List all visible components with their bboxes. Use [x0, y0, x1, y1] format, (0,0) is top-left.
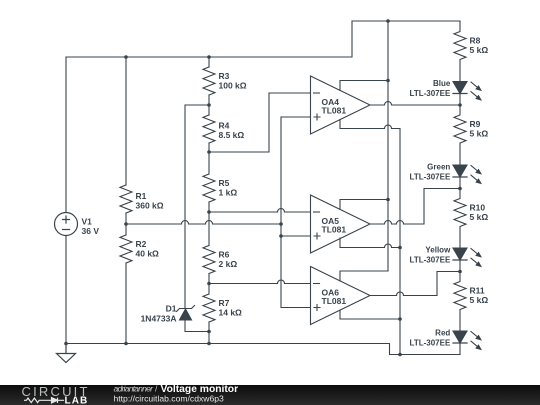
resistor R9 [454, 105, 466, 165]
wire OA5 noninverting stub [281, 235, 311, 237]
wire OA5 V+ pin [340, 200, 388, 210]
junction R3 top / supply net [207, 55, 211, 59]
svg-text:LTL-307EE: LTL-307EE [410, 89, 451, 98]
node D R6-R7 tap to OA6 [207, 282, 211, 286]
svg-text:Yellow: Yellow [425, 246, 451, 255]
svg-text:LTL-307EE: LTL-307EE [410, 256, 451, 265]
wire bottom ground rail [66, 344, 460, 355]
junction V1 minus / ground net [64, 342, 68, 346]
svg-text:Green: Green [427, 163, 450, 172]
svg-text:TL081: TL081 [322, 106, 347, 116]
svg-text:R1: R1 [136, 191, 147, 201]
junction OA5 noninverting input [279, 234, 283, 238]
junction OA5 V+ pin [386, 198, 390, 202]
wire V- supply rail [399, 129, 401, 355]
node B R4-R5 tap to OA4 [207, 150, 211, 154]
svg-text:R9: R9 [470, 119, 481, 129]
svg-text:Red: Red [435, 329, 450, 338]
svg-text:R2: R2 [136, 239, 147, 249]
svg-text:5 kΩ: 5 kΩ [470, 295, 489, 305]
circuitlab logo [22, 384, 90, 405]
svg-text:R6: R6 [219, 250, 230, 260]
svg-text:1 kΩ: 1 kΩ [219, 188, 238, 198]
wire R5-R6 [208, 202, 210, 246]
wire R4-R5 [208, 143, 210, 174]
op-amp OA6 [311, 267, 371, 325]
node junction dots [64, 19, 462, 356]
resistor R6 [203, 246, 215, 274]
wire OA5 inverting feed from R5-R6 node [209, 209, 311, 213]
wire V+ supply rail [387, 21, 389, 271]
wire R2 bottom lead [125, 263, 127, 344]
svg-text:360 kΩ: 360 kΩ [136, 201, 164, 211]
svg-text:100 kΩ: 100 kΩ [219, 81, 247, 91]
svg-text:36 V: 36 V [82, 226, 100, 236]
svg-text:R3: R3 [219, 71, 230, 81]
node G OA5 output / Green LED cathode [458, 187, 462, 191]
wire OA4 output to Blue node [370, 102, 460, 105]
svg-text:R7: R7 [219, 298, 230, 308]
wire R3 top lead [208, 57, 210, 67]
resistor R4 [203, 115, 215, 143]
svg-text:LTL-307EE: LTL-307EE [410, 173, 451, 182]
op-amp OA5 [311, 195, 371, 253]
svg-text:1N4733A: 1N4733A [141, 313, 177, 323]
junction OA6 V- pin [398, 317, 402, 321]
wire OA6 inverting feed from R6-R7 node [209, 280, 311, 284]
node A R3-R4 zener reference [207, 103, 211, 107]
junction V- rail / ground net [398, 353, 402, 357]
svg-text:14 kΩ: 14 kΩ [219, 308, 243, 318]
wire D1 anode to R7 lead [185, 320, 209, 332]
junction OA4 V+ pin [386, 79, 390, 83]
svg-text:D1: D1 [166, 304, 177, 314]
op-amp OA4 [311, 76, 371, 134]
wire noninverting rail [281, 117, 311, 308]
wire OA5 V- pin [340, 238, 400, 248]
resistor R5 [203, 174, 215, 202]
wire OA6 V- pin [340, 310, 400, 319]
svg-text:R4: R4 [219, 121, 230, 131]
wire OA6 V+ pin [340, 271, 388, 281]
footer text [114, 384, 239, 404]
resistor R2 [120, 235, 132, 263]
svg-text:adriantanner: adriantanner [114, 384, 155, 394]
svg-text:40 kΩ: 40 kΩ [136, 249, 160, 259]
svg-text:LTL-307EE: LTL-307EE [410, 339, 451, 348]
wire R1 top lead [125, 57, 127, 185]
LED Yellow D4 [453, 248, 482, 272]
node H OA6 output / Yellow LED cathode [458, 270, 462, 274]
svg-text:Blue: Blue [433, 79, 451, 88]
svg-text:5 kΩ: 5 kΩ [470, 212, 489, 222]
wire left rail lower [65, 236, 67, 344]
junction OA5 V- pin [398, 246, 402, 250]
ground [57, 344, 76, 363]
resistor R11 [454, 272, 466, 332]
wire R3-R4 [208, 95, 210, 115]
wire OA4 V+ pin [340, 81, 388, 91]
wire OA4 V- pin [340, 120, 400, 129]
node F OA4 output / Blue LED cathode [458, 103, 462, 107]
junction V+ rail / supply net [386, 19, 390, 23]
svg-text:V1: V1 [82, 216, 93, 226]
LED Blue D2 [453, 82, 482, 106]
zener diode D1 [177, 306, 195, 321]
resistor R10 [454, 189, 466, 249]
voltage source V1 [55, 213, 78, 236]
LED Green D3 [453, 165, 482, 189]
resistor R7 [203, 294, 215, 322]
svg-text:TL081: TL081 [322, 296, 347, 306]
svg-text:TL081: TL081 [322, 225, 347, 235]
junction tap wire / noninverting rail [279, 222, 283, 226]
junction R1 top / supply net [124, 55, 128, 59]
resistor R3 [203, 67, 215, 95]
svg-text:R10: R10 [470, 203, 486, 213]
svg-text:LAB: LAB [65, 396, 89, 405]
wire left rail upper [65, 57, 67, 213]
resistor R1 [120, 185, 132, 213]
svg-text:2 kΩ: 2 kΩ [219, 259, 238, 269]
wire divider tap to plus rail [126, 221, 281, 225]
wire OA6 output to Yellow node [370, 272, 460, 296]
node C R5-R6 tap to OA5 [207, 210, 211, 214]
wire R6-R7 [208, 274, 210, 295]
wire top rail from V1 plus [66, 21, 460, 57]
junction R2 bottom / ground net [124, 342, 128, 346]
wire OA4 inverting feed from R4-R5 node [209, 93, 311, 152]
svg-text:R5: R5 [219, 178, 230, 188]
svg-text:5 kΩ: 5 kΩ [470, 129, 489, 139]
wire OA5 output to Green node [370, 189, 460, 225]
wire zener feed from R3-R4 node [185, 105, 209, 309]
svg-text:R8: R8 [470, 36, 481, 46]
node E R1-R2 divider tap [124, 222, 128, 226]
svg-text:http://circuitlab.com/cdxw6p3: http://circuitlab.com/cdxw6p3 [114, 393, 225, 403]
junction D1 anode / R7 lead [207, 330, 211, 334]
svg-text:5 kΩ: 5 kΩ [470, 45, 489, 55]
wire R1-R2 [125, 213, 127, 235]
resistor R8 [454, 21, 466, 82]
LED Red D5 [453, 331, 482, 355]
svg-text:R11: R11 [470, 286, 485, 296]
wire R7 bottom lead [208, 322, 210, 344]
svg-text:8.5 kΩ: 8.5 kΩ [219, 130, 245, 140]
junction R7 bottom / ground net [207, 342, 211, 346]
